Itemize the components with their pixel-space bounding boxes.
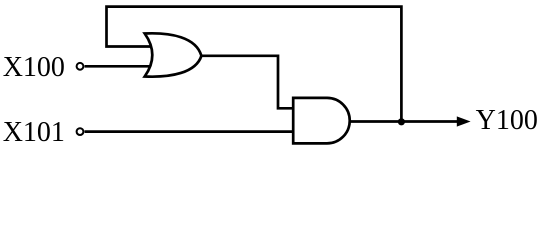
svg-text:Y100: Y100	[476, 105, 538, 136]
svg-text:X100: X100	[3, 52, 65, 83]
svg-text:X101: X101	[3, 117, 65, 148]
